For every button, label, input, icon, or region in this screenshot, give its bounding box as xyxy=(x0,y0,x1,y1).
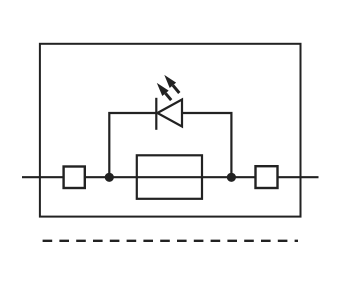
LED light arrow 1 (lower-left) xyxy=(157,83,171,100)
node: right junction dot xyxy=(227,173,236,182)
outer enclosure box xyxy=(40,44,301,217)
right clamp terminal square xyxy=(256,166,278,188)
wire: main horizontal conductor xyxy=(22,176,319,178)
LED D1 triangle xyxy=(157,100,182,127)
LED light arrow 2 (upper-right) xyxy=(164,75,179,93)
node: left junction dot xyxy=(105,173,114,182)
LED D1 cathode bar xyxy=(155,98,157,130)
wire: right LED branch (up and left) xyxy=(182,113,231,177)
left clamp terminal square xyxy=(64,167,85,189)
wire: left LED branch (up and right) xyxy=(109,113,156,177)
fuse body rectangle xyxy=(137,155,202,199)
dashed mounting-rail line xyxy=(43,240,298,242)
